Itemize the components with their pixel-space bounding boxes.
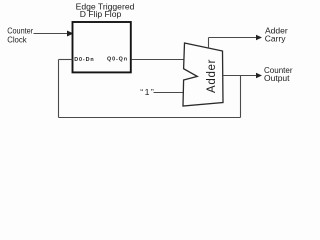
arrowhead counter output bbox=[256, 73, 262, 78]
wire feedback left vertical bbox=[58, 60, 60, 118]
D flip-flop box U1 bbox=[73, 22, 131, 72]
arrowhead clock into flip flop bbox=[67, 31, 74, 37]
svg-text:Carry: Carry bbox=[265, 33, 287, 43]
svg-text:“1”: “1” bbox=[140, 87, 155, 97]
wire Q output to adder bbox=[132, 59, 184, 61]
svg-text:Output: Output bbox=[264, 73, 290, 83]
svg-text:D Flip Flop: D Flip Flop bbox=[80, 9, 122, 19]
wire constant 1 into adder bbox=[154, 92, 185, 94]
wire feedback bottom horizontal bbox=[59, 117, 241, 119]
wire clock input bbox=[34, 33, 69, 35]
wire adder carry up bbox=[208, 38, 210, 49]
adder U2 body bbox=[183, 43, 223, 106]
wire adder carry horizontal bbox=[209, 37, 259, 39]
svg-text:Clock: Clock bbox=[7, 34, 27, 44]
wire counter output bbox=[223, 75, 258, 77]
svg-text:Adder: Adder bbox=[206, 59, 218, 93]
wire feedback stub into D input bbox=[59, 59, 73, 61]
svg-text:Q0-Qn: Q0-Qn bbox=[107, 57, 128, 63]
wire feedback right vertical bbox=[240, 76, 242, 118]
svg-text:D0-Dn: D0-Dn bbox=[74, 57, 94, 63]
arrowhead adder carry bbox=[256, 35, 262, 40]
